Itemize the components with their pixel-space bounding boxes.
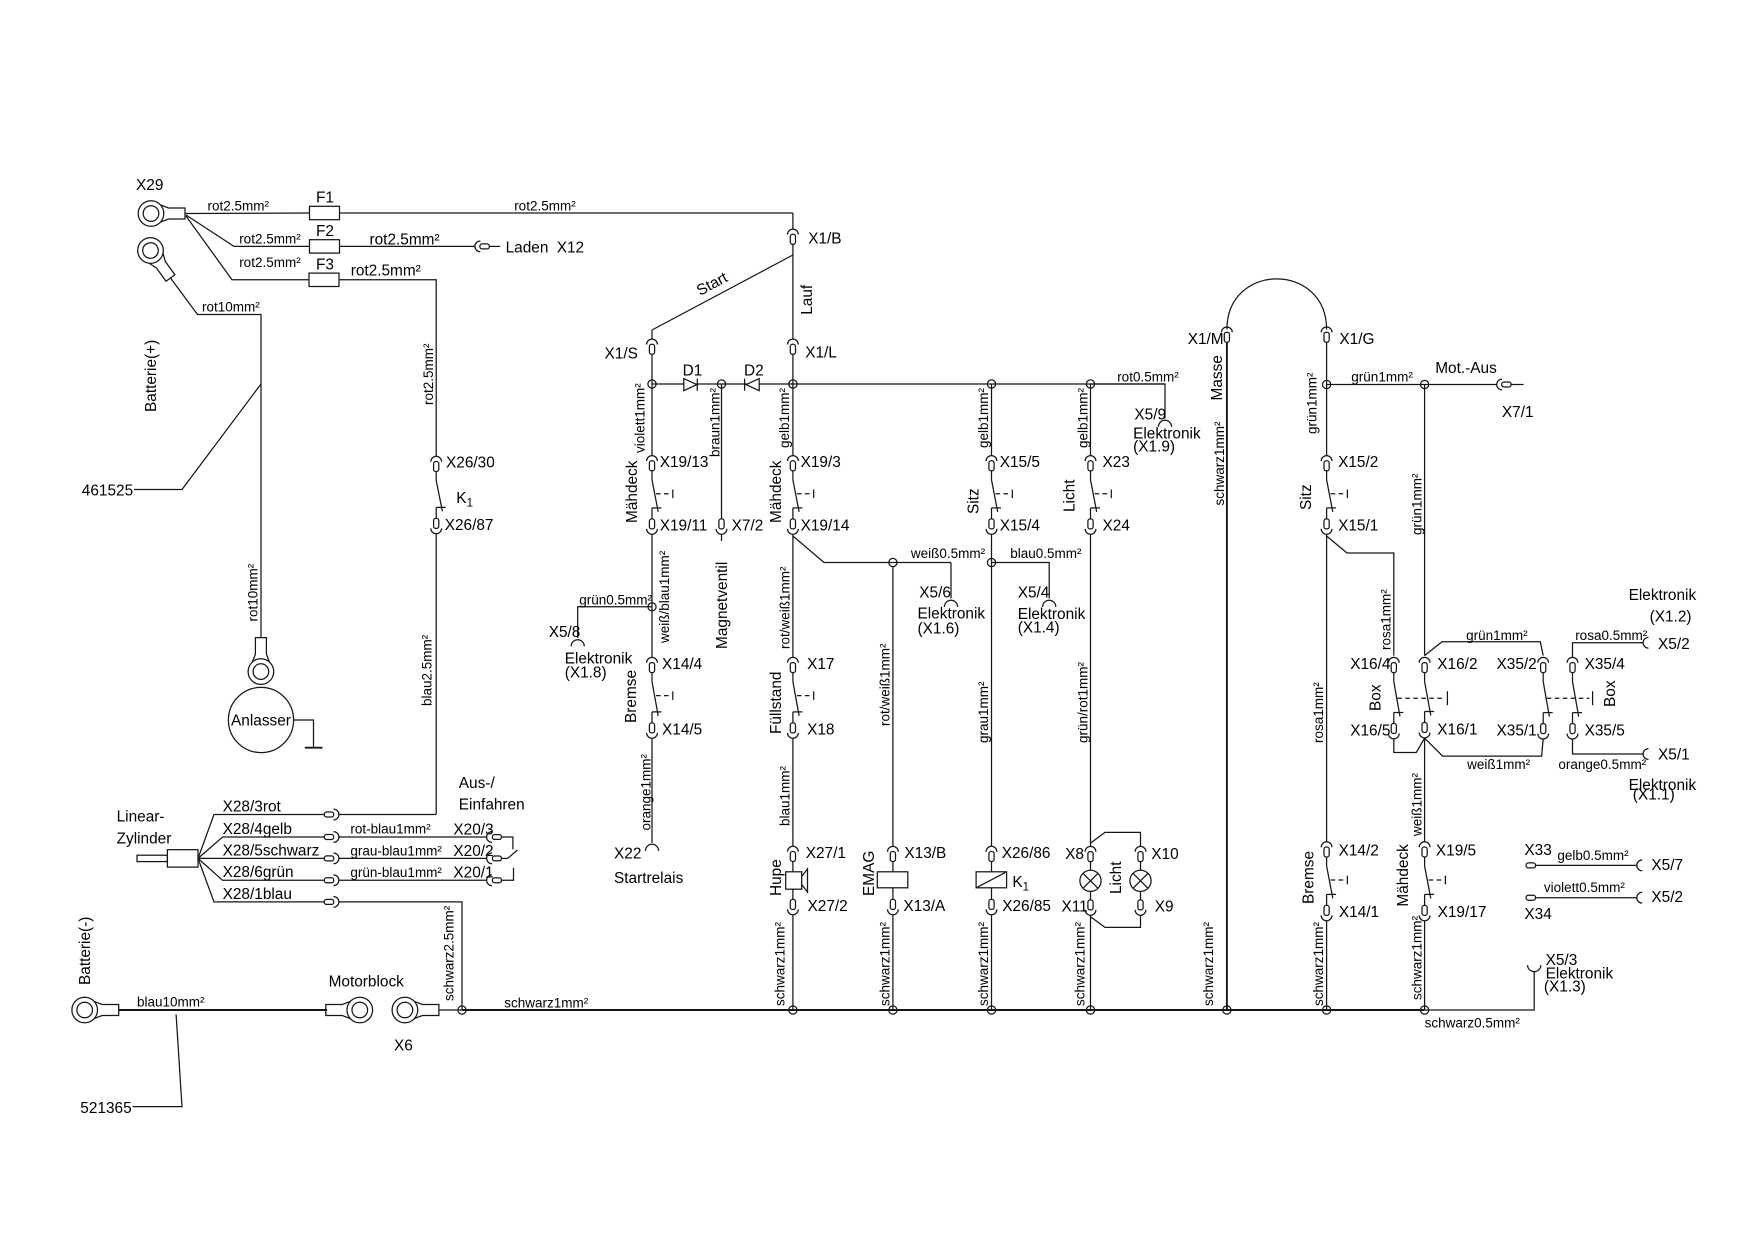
connector X11 (1062, 891, 1096, 915)
wire gruen1mm2 Sitz right (1305, 372, 1327, 456)
node junction blau0.5 branch (987, 558, 995, 566)
wire rot2.5mm2 F1 to X1/B corner (340, 212, 793, 214)
wire rot-blau1mm2 (339, 822, 487, 838)
svg-text:Elektronik: Elektronik (1629, 587, 1697, 604)
svg-text:X7/1: X7/1 (1502, 404, 1534, 421)
label blau2.5mm2 (420, 634, 435, 706)
svg-text:X26/85: X26/85 (1002, 898, 1051, 915)
connector X14/1 (1321, 904, 1379, 921)
connector X28/1 (324, 897, 339, 908)
connector X26/86 (986, 845, 1050, 862)
svg-text:X33: X33 (1524, 842, 1551, 859)
wire orange1mm2 to X22 (639, 738, 654, 843)
connector X15/5 (986, 454, 1040, 471)
svg-text:X5/4: X5/4 (1018, 585, 1050, 602)
svg-text:X16/5: X16/5 (1350, 722, 1390, 739)
wire schwarz0.5mm2 to X5/3 (1425, 971, 1535, 1030)
svg-text:X20/2: X20/2 (453, 843, 493, 860)
label rot2.5mm2 F1-left (208, 199, 270, 214)
connector X19/13 (647, 454, 709, 471)
svg-text:X35/2: X35/2 (1497, 656, 1537, 673)
svg-text:gelb1mm²: gelb1mm² (976, 387, 991, 448)
svg-text:X5/9: X5/9 (1134, 407, 1166, 424)
connector X5/7 (1637, 857, 1683, 874)
connector X5/8 Elektronik X1.8 (549, 624, 633, 682)
svg-text:blau0.5mm²: blau0.5mm² (1010, 546, 1082, 561)
terminal Anlasser ring lug (248, 638, 274, 685)
svg-text:(X1.2): (X1.2) (1650, 609, 1692, 626)
svg-text:Startrelais: Startrelais (614, 870, 684, 887)
svg-text:schwarz1mm²: schwarz1mm² (1073, 921, 1088, 1006)
connector X20/3 (453, 822, 513, 850)
node junction schwarz2.5 (458, 1006, 466, 1014)
wire X1/L to bus (792, 355, 794, 385)
wire weiss0.5mm2 mid bus (893, 546, 986, 563)
svg-text:orange0.5mm²: orange0.5mm² (1558, 757, 1646, 772)
svg-text:rosa1mm²: rosa1mm² (1379, 589, 1394, 650)
label rot2.5mm2 F2-right (370, 232, 440, 249)
svg-text:X16/4: X16/4 (1350, 656, 1391, 673)
coil EMAG (861, 851, 908, 896)
terminal X29 ring lug (136, 177, 185, 226)
wire schwarz2.5mm2 (339, 902, 462, 1010)
relay contact K1 (436, 472, 473, 519)
connector X33 pin (1524, 842, 1551, 868)
svg-text:X14/1: X14/1 (1339, 904, 1379, 921)
terminal Motorblock right lug X6 (392, 997, 439, 1054)
bus wire schwarz1mm2 bottom (462, 996, 1425, 1011)
node junction EMAG drop (889, 558, 897, 566)
label rot2.5mm2 F2-left (239, 232, 301, 247)
wire schwarz1mm2 EMAG to bus (878, 915, 893, 1010)
terminal Batterie(-) ring lug (72, 917, 119, 1023)
wire branch X15/1 to X16/4 (1327, 536, 1394, 656)
svg-text:schwarz1mm²: schwarz1mm² (1410, 915, 1425, 1000)
svg-text:Magnetventil: Magnetventil (714, 562, 731, 649)
svg-text:Linear-: Linear- (117, 809, 165, 826)
connector X12 Laden (475, 240, 584, 257)
svg-text:rot/weiß1mm²: rot/weiß1mm² (878, 643, 893, 726)
wire grau1mm2 to X26/86 (976, 563, 992, 847)
wire gruen1mm2 Mot-Aus (1327, 360, 1497, 385)
connector X13/A (888, 888, 947, 915)
svg-text:schwarz1mm²: schwarz1mm² (1212, 421, 1227, 506)
label rot2.5mm2 F3-right (351, 263, 421, 280)
wire X16/5 to X16/1 node (1394, 738, 1425, 752)
wire X15/4 to mid junction (991, 534, 993, 562)
svg-text:X7/2: X7/2 (732, 518, 764, 535)
svg-text:blau1mm²: blau1mm² (778, 765, 793, 826)
svg-text:X28/3rot: X28/3rot (223, 799, 282, 816)
svg-text:Zylinder: Zylinder (117, 831, 172, 848)
svg-text:X27/1: X27/1 (806, 845, 846, 862)
svg-text:(X1.9): (X1.9) (1133, 439, 1175, 456)
svg-text:Batterie(+): Batterie(+) (143, 340, 160, 412)
svg-text:(X1.1): (X1.1) (1633, 787, 1675, 804)
connector X28/3 (324, 809, 339, 820)
svg-text:(X1.8): (X1.8) (565, 665, 607, 682)
wire to X5/6 (950, 563, 952, 599)
svg-text:X12: X12 (557, 240, 584, 257)
connector X5/2 Elektronik X1.2 (1629, 587, 1697, 653)
wire X28/5schwarz row (198, 843, 324, 860)
wire rot0.5mm2 to X5/9 (1091, 370, 1180, 419)
wire Lauf X1/B to X1/L (793, 245, 816, 340)
node junction X1/G (1323, 380, 1331, 388)
svg-text:rosa0.5mm²: rosa0.5mm² (1575, 628, 1648, 643)
svg-text:blau10mm²: blau10mm² (137, 995, 205, 1010)
wire violett1mm2 (633, 383, 653, 456)
svg-text:rot10mm²: rot10mm² (246, 563, 261, 621)
svg-text:X20/1: X20/1 (453, 865, 493, 882)
svg-text:Aus-/: Aus-/ (459, 775, 496, 792)
connector X28/5 (324, 853, 339, 864)
svg-text:Licht: Licht (1108, 861, 1125, 894)
fuse F3 (309, 257, 339, 287)
svg-text:Licht: Licht (1062, 479, 1079, 512)
svg-text:grau1mm²: grau1mm² (976, 681, 991, 743)
callout 521365 (80, 1015, 182, 1118)
svg-text:grau-blau1mm²: grau-blau1mm² (350, 844, 442, 859)
svg-text:schwarz1mm²: schwarz1mm² (1311, 921, 1326, 1006)
callout 461525 (82, 384, 261, 500)
actuator Linear-Zylinder (117, 809, 198, 868)
switch Box right pair (1543, 673, 1619, 724)
connector X14/5 (647, 722, 703, 739)
svg-text:grün0.5mm²: grün0.5mm² (579, 593, 652, 608)
wire weiss/blau1mm2 (652, 534, 672, 644)
svg-text:grün/rot1mm²: grün/rot1mm² (1076, 661, 1091, 743)
svg-text:EMAG: EMAG (861, 851, 878, 896)
svg-text:X5/2: X5/2 (1658, 636, 1690, 653)
lamp Licht left (1080, 862, 1101, 892)
svg-text:Mähdeck: Mähdeck (768, 460, 785, 523)
wire branch to X10 (1091, 832, 1141, 846)
connector X20/2 with blade (453, 843, 517, 864)
svg-text:(X1.3): (X1.3) (1544, 979, 1586, 996)
wire rosa0.5mm2 X35/4 to X5/2 (1573, 628, 1648, 658)
svg-text:X5/7: X5/7 (1651, 857, 1683, 874)
wire gruen0.5mm2 to X5/8 (578, 593, 653, 639)
svg-text:(X1.4): (X1.4) (1018, 620, 1060, 637)
svg-text:grün1mm²: grün1mm² (1466, 628, 1528, 643)
svg-text:grün1mm²: grün1mm² (1410, 473, 1425, 535)
connector X7/1 Mot-Aus (1497, 379, 1534, 421)
label Aus-/Einfahren (459, 775, 525, 814)
wire gruen/rot1mm2 to lamps (1076, 534, 1091, 846)
node junction X1/S bus (648, 380, 656, 388)
svg-text:X28/1blau: X28/1blau (223, 886, 292, 903)
svg-text:X19/17: X19/17 (1438, 904, 1487, 921)
connector X22 Startrelais (614, 844, 684, 887)
wire X28/3 to blau2.5 corner (339, 814, 437, 816)
svg-text:Lauf: Lauf (799, 284, 816, 315)
wire schwarz1mm2 lamps to bus (1073, 915, 1091, 1010)
switch Bremse left (623, 670, 673, 723)
svg-text:X10: X10 (1151, 846, 1178, 863)
connector X27/2 (788, 889, 848, 915)
connector X28/4 (324, 832, 339, 843)
terminal Motorblock left lug (326, 974, 404, 1023)
terminal Batterie(+) ring lug (133, 233, 181, 412)
svg-text:X19/13: X19/13 (660, 454, 709, 471)
svg-text:schwarz1mm²: schwarz1mm² (504, 996, 589, 1011)
svg-text:grün-blau1mm²: grün-blau1mm² (350, 865, 442, 880)
svg-text:X6: X6 (394, 1038, 413, 1055)
svg-text:X1/S: X1/S (605, 346, 638, 363)
wire rot/weiss1mm2 to X17 (778, 534, 793, 657)
connector X26/30 (431, 455, 495, 472)
connector X1/B (788, 213, 842, 248)
horn Hupe (768, 859, 808, 896)
svg-text:rot-blau1mm²: rot-blau1mm² (350, 822, 431, 837)
relay coil K1 (976, 862, 1029, 894)
wire X9 to X11 node (1091, 915, 1141, 927)
connector X1/M (1188, 327, 1233, 401)
node junction EMAG bus (889, 1006, 897, 1014)
svg-text:rot2.5mm²: rot2.5mm² (421, 343, 436, 405)
svg-text:D2: D2 (744, 363, 764, 380)
label rot10mm2 horizontal (202, 300, 260, 315)
connector X16/4 (1350, 656, 1399, 673)
svg-text:rot2.5mm²: rot2.5mm² (208, 199, 270, 214)
label rot2.5mm2 F1-right (514, 199, 576, 214)
connector X5/2 lower (1637, 889, 1683, 906)
svg-text:X13/B: X13/B (904, 845, 946, 862)
svg-text:461525: 461525 (82, 483, 133, 500)
node junction Licht bus (1086, 380, 1094, 388)
fuse F1 (310, 190, 340, 220)
svg-text:X14/2: X14/2 (1339, 843, 1379, 860)
connector X35/1 (1497, 722, 1549, 739)
svg-text:X8: X8 (1065, 846, 1084, 863)
svg-text:Masse: Masse (1209, 355, 1226, 400)
connector X16/2 (1419, 656, 1477, 673)
node junction Bremse bus (1323, 1006, 1331, 1014)
svg-text:Anlasser: Anlasser (231, 713, 291, 730)
wire gruen-blau1mm2 (339, 865, 487, 880)
svg-text:rot2.5mm²: rot2.5mm² (514, 199, 576, 214)
svg-text:Sitz: Sitz (1298, 484, 1315, 510)
connector X19/14 (788, 518, 850, 535)
wire schwarz1mm2 X19/17 to bus (1410, 915, 1425, 1010)
svg-text:orange1mm²: orange1mm² (639, 753, 654, 830)
svg-text:X22: X22 (614, 846, 641, 863)
connector X1/G (1321, 327, 1374, 348)
wire gelb0.5mm2 X33 to X5/7 (1536, 848, 1638, 865)
svg-text:X35/4: X35/4 (1585, 656, 1626, 673)
node junction Hupe bus (789, 1006, 797, 1014)
svg-text:X19/3: X19/3 (801, 454, 841, 471)
svg-text:rot10mm²: rot10mm² (202, 300, 260, 315)
switch Fuellstand (768, 672, 814, 734)
wire rot2.5mm2 X29 to F1 (185, 212, 310, 215)
svg-text:X28/4gelb: X28/4gelb (223, 821, 292, 838)
svg-text:violett1mm²: violett1mm² (633, 383, 648, 453)
svg-text:X23: X23 (1103, 454, 1130, 471)
connector X8 (1065, 846, 1096, 863)
wire blau0.5mm2 to X5/4 (992, 546, 1082, 599)
svg-text:F1: F1 (316, 190, 334, 207)
connector X15/2 (1321, 454, 1378, 471)
connector X19/11 (647, 518, 708, 535)
svg-text:X27/2: X27/2 (808, 898, 848, 915)
svg-text:rosa1mm²: rosa1mm² (1311, 682, 1326, 743)
node junction Sitz bus (987, 380, 995, 388)
connector X5/6 Elektronik X1.6 (918, 585, 986, 638)
svg-text:Box: Box (1368, 684, 1385, 711)
connector X35/2 (1497, 656, 1549, 673)
svg-text:X19/11: X19/11 (660, 518, 708, 535)
svg-text:X1/M: X1/M (1188, 331, 1224, 348)
svg-text:X19/14: X19/14 (801, 518, 850, 535)
connector X10 (1135, 846, 1179, 863)
svg-text:X1/B: X1/B (808, 231, 841, 248)
svg-text:gelb1mm²: gelb1mm² (1076, 387, 1091, 448)
svg-text:Mähdeck: Mähdeck (1395, 844, 1412, 907)
connector X35/5 (1567, 722, 1625, 739)
svg-text:X15/5: X15/5 (1000, 454, 1040, 471)
connector X18 (788, 722, 835, 739)
connector X5/9 Elektronik X1.9 (1133, 407, 1201, 456)
svg-text:X14/4: X14/4 (662, 656, 703, 673)
connector X19/17 (1419, 904, 1486, 921)
node junction K1 bus (987, 1006, 995, 1014)
wire X29 to F2 (186, 215, 310, 246)
connector X16/5 (1350, 722, 1399, 739)
connector X34 pin (1524, 895, 1552, 923)
wire X16/1 to X35/1 (1425, 738, 1544, 772)
svg-text:X13/A: X13/A (903, 898, 946, 915)
connector X28/6 (324, 875, 339, 886)
wire bridge X1/M X1/G (1227, 279, 1327, 330)
connector X14/4 (647, 656, 703, 673)
connector X23 (1085, 454, 1130, 471)
diode D1 (683, 363, 703, 391)
svg-text:X28/6grün: X28/6grün (223, 864, 294, 881)
svg-text:X5/2: X5/2 (1651, 889, 1683, 906)
wire grau-blau1mm2 (339, 844, 487, 859)
connector X5/1 Elektronik X1.1 (1629, 747, 1697, 804)
svg-text:weiß1mm²: weiß1mm² (1466, 757, 1531, 772)
svg-text:grün1mm²: grün1mm² (1351, 370, 1413, 385)
svg-text:Sitz: Sitz (966, 488, 983, 514)
svg-text:Hupe: Hupe (768, 859, 785, 896)
wire blau2.5mm2 X26/87 to X28/3 row (435, 534, 437, 815)
svg-text:rot2.5mm²: rot2.5mm² (370, 232, 440, 249)
wire X29 to F3 (186, 216, 309, 280)
svg-text:521365: 521365 (80, 1100, 131, 1117)
node junction X19/17 bus (1421, 1006, 1429, 1014)
switch Maehdeck right (768, 460, 814, 523)
wire rot2.5mm2 F3 to X26/30 corner (339, 280, 436, 457)
svg-text:schwarz2.5mm²: schwarz2.5mm² (442, 905, 457, 1001)
svg-text:X26/87: X26/87 (445, 517, 494, 534)
svg-text:Bremse: Bremse (623, 670, 640, 723)
svg-text:Batterie(-): Batterie(-) (77, 917, 94, 985)
svg-text:X17: X17 (807, 656, 834, 673)
svg-text:F3: F3 (316, 257, 334, 274)
fuse F2 (310, 223, 340, 253)
connector X9 (1135, 891, 1173, 915)
svg-text:Mähdeck: Mähdeck (624, 460, 641, 523)
svg-text:F2: F2 (316, 223, 334, 240)
wire gelb1mm2 Sitz (976, 384, 992, 456)
svg-text:X15/2: X15/2 (1338, 454, 1378, 471)
svg-text:rot/weiß1mm²: rot/weiß1mm² (778, 566, 793, 649)
svg-text:X24: X24 (1103, 518, 1131, 535)
switch Bremse right (1301, 851, 1348, 905)
wire schwarz1mm2 Masse (1201, 343, 1227, 1010)
wire F2 to Laden connector (340, 245, 476, 247)
wire to X14/4 (651, 607, 653, 658)
svg-text:X15/1: X15/1 (1338, 518, 1378, 535)
svg-text:Laden: Laden (506, 240, 549, 257)
svg-text:Mot.-Aus: Mot.-Aus (1435, 360, 1497, 377)
svg-text:D1: D1 (683, 363, 703, 380)
label rot10mm2 vertical (246, 563, 261, 621)
svg-text:grün1mm²: grün1mm² (1305, 372, 1320, 434)
switch Sitz right (1298, 471, 1347, 519)
svg-text:rot2.5mm²: rot2.5mm² (351, 263, 421, 280)
svg-text:X26/30: X26/30 (446, 455, 495, 472)
svg-text:X5/1: X5/1 (1658, 747, 1690, 764)
wire violett0.5mm2 X34 to X5/2 (1536, 880, 1638, 898)
connector X5/3 Elektronik X1.3 (1528, 952, 1614, 996)
lamp Licht right (1108, 861, 1151, 894)
svg-text:rot2.5mm²: rot2.5mm² (239, 255, 301, 270)
connector X15/4 (986, 518, 1040, 535)
wire gruen1mm2 drop to X16/2 (1410, 385, 1425, 656)
svg-text:rot2.5mm²: rot2.5mm² (239, 232, 301, 247)
svg-text:Box: Box (1602, 680, 1619, 707)
svg-text:X5/8: X5/8 (549, 624, 581, 641)
wire schwarz1mm2 X14/1 to bus (1311, 921, 1327, 1010)
svg-text:X26/86: X26/86 (1002, 845, 1051, 862)
diode D2 (744, 363, 764, 391)
wire rot/weiss1mm2 EMAG column (878, 567, 893, 847)
switch Sitz left (966, 471, 1013, 519)
svg-text:X5/6: X5/6 (919, 585, 951, 602)
wire X28/3rot row (198, 799, 324, 859)
node junction gruen drop (1421, 380, 1429, 388)
node junction braun bus (717, 380, 725, 388)
connector X19/5 (1419, 842, 1476, 860)
svg-text:Motorblock: Motorblock (329, 974, 405, 991)
svg-text:X9: X9 (1155, 899, 1174, 916)
svg-text:weiß1mm²: weiß1mm² (1410, 772, 1425, 837)
wire weiss1mm2 to X19/5 (1410, 738, 1425, 842)
bus wire main y384 (652, 383, 1165, 385)
svg-text:schwarz1mm²: schwarz1mm² (773, 921, 788, 1006)
svg-text:X18: X18 (807, 722, 834, 739)
wire gruen1mm2 X16/2 to X35/2 (1425, 628, 1544, 656)
svg-text:schwarz1mm²: schwarz1mm² (878, 921, 893, 1006)
svg-text:X14/5: X14/5 (662, 722, 702, 739)
svg-text:gelb1mm²: gelb1mm² (777, 387, 792, 448)
svg-text:X34: X34 (1524, 906, 1552, 923)
svg-text:schwarz1mm²: schwarz1mm² (1201, 921, 1216, 1006)
node junction lamps bus (1086, 1006, 1094, 1014)
svg-text:schwarz1mm²: schwarz1mm² (976, 921, 991, 1006)
wire X28/1blau row (198, 858, 324, 903)
wire schwarz1mm2 Hupe to bus (773, 915, 793, 1010)
svg-text:braun1mm²: braun1mm² (708, 387, 723, 457)
label rot2.5mm2 F3-left (239, 255, 301, 270)
svg-text:weiß/blau1mm²: weiß/blau1mm² (657, 550, 672, 644)
connector X15/1 (1321, 518, 1378, 535)
svg-text:X16/2: X16/2 (1437, 656, 1477, 673)
